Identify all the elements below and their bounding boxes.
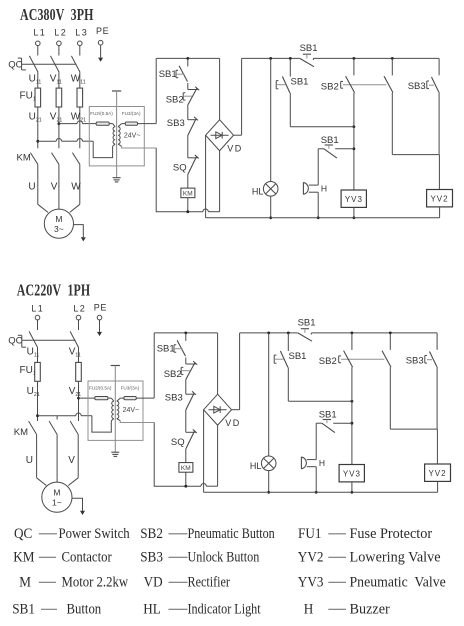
wire ladder bottom rail [top]	[203, 209, 220, 212]
svg-text:KM: KM	[17, 152, 31, 163]
wire horn branch riser [bottom]	[315, 423, 317, 459]
svg-text:M: M	[19, 574, 31, 591]
button SB1 (release, NC) [bottom]	[274, 333, 306, 401]
svg-text:FU3/(3A): FU3/(3A)	[122, 111, 141, 116]
node V11	[50, 73, 62, 85]
svg-text:U11: U11	[29, 73, 42, 85]
node W11	[71, 73, 86, 85]
wire secondary-top riser [top]	[155, 58, 157, 123]
ground symbol (T2)	[111, 452, 119, 456]
svg-text:QC: QC	[8, 59, 22, 70]
svg-text:YV3: YV3	[298, 574, 324, 591]
wire YV3 return [bottom]	[351, 482, 354, 494]
node W21	[71, 111, 86, 123]
svg-text:L2: L2	[54, 27, 67, 37]
svg-text:FU1: FU1	[20, 365, 36, 377]
contactor coil KM [bottom]	[179, 463, 193, 488]
title AC220V 1PH	[17, 282, 91, 301]
node U11 (1ph)	[27, 347, 40, 359]
svg-text:KM: KM	[13, 549, 35, 566]
svg-text:Pneumatic Button: Pneumatic Button	[188, 525, 275, 541]
svg-text:M: M	[53, 488, 60, 498]
wire motor feeds	[38, 204, 80, 212]
svg-text:Indicator Light: Indicator Light	[188, 600, 261, 616]
svg-text:SB1: SB1	[300, 43, 318, 54]
wire HL return [bottom]	[267, 471, 270, 494]
svg-text:YV2: YV2	[430, 195, 448, 204]
svg-text:FU2/(0.5A): FU2/(0.5A)	[89, 386, 112, 391]
svg-text:KM: KM	[183, 191, 193, 198]
transformer primary winding (T2)	[108, 398, 114, 421]
svg-text:Button: Button	[67, 602, 102, 618]
wire bridge AC1 (top vertex) [bottom]	[217, 333, 219, 394]
svg-text:SB3: SB3	[406, 356, 424, 367]
svg-text:SB1: SB1	[159, 69, 177, 80]
wire bridge DC- (bottom vertex) [top]	[219, 151, 221, 212]
button SB2 (two-pole) [top]	[321, 58, 393, 190]
wire bridge DC- (bottom vertex) [bottom]	[217, 425, 219, 486]
svg-text:SB3: SB3	[165, 393, 183, 404]
svg-text:V: V	[68, 455, 75, 466]
fuse FU2 label (T1)	[90, 111, 113, 116]
wire YV3 return [top]	[353, 207, 356, 219]
rectifier VD [top]	[206, 120, 243, 154]
wire HL return [top]	[269, 196, 272, 219]
wire buzzer return [top]	[317, 192, 320, 219]
transformer secondary winding (T1)	[118, 124, 122, 147]
button SB1 (ladder stop) [bottom]	[157, 333, 186, 364]
svg-text:3~: 3~	[54, 224, 64, 234]
button SB3 (ladder) [top]	[167, 117, 198, 158]
terminal L2	[54, 27, 67, 55]
svg-text:SB2: SB2	[164, 369, 182, 380]
svg-text:24V~: 24V~	[123, 407, 140, 414]
wire buzzer return [bottom]	[315, 467, 318, 494]
wire transformer primary feed from V21	[58, 121, 97, 125]
svg-text:Fuse Protector: Fuse Protector	[350, 526, 433, 542]
svg-text:SQ: SQ	[171, 437, 185, 448]
node V21	[50, 111, 63, 123]
rectifier VD [bottom]	[204, 394, 241, 428]
svg-text:M: M	[55, 214, 62, 224]
node V (1ph)	[68, 455, 75, 466]
terminal PE	[96, 26, 109, 62]
wire secondary-bottom riser [bottom]	[154, 423, 201, 487]
button SB1 (horn) [top]	[318, 135, 354, 158]
svg-text:HL: HL	[250, 461, 262, 471]
terminal L3	[75, 27, 88, 55]
fuse FU1 label (1ph)	[20, 365, 36, 377]
svg-text:SB2: SB2	[319, 356, 337, 367]
svg-text:V: V	[51, 182, 58, 193]
valve YV2 [bottom]	[425, 464, 451, 481]
button SB2 (ladder) [top]	[166, 87, 200, 120]
svg-text:SQ: SQ	[173, 162, 187, 173]
fuse FU2 (T2)	[95, 397, 108, 400]
wire SB2/SB3 junction to YV2 [top]	[392, 155, 439, 190]
node V	[51, 182, 58, 193]
fuse FU1 pole 3	[77, 72, 83, 148]
node V21 (1ph)	[69, 386, 82, 398]
svg-text:FU1: FU1	[298, 525, 321, 542]
svg-text:FU1: FU1	[20, 91, 36, 103]
terminal PE (1ph)	[94, 302, 107, 336]
svg-text:AC220V 1PH: AC220V 1PH	[17, 282, 91, 301]
svg-text:W11: W11	[71, 73, 86, 85]
wire ladder bottom rail [bottom]	[201, 483, 218, 486]
wire top rail segment 2 [top]	[242, 57, 440, 60]
fuse FU1 pole 1 (1ph)	[35, 348, 41, 421]
contactor coil KM [top]	[181, 188, 195, 213]
svg-text:V21: V21	[69, 386, 82, 398]
wire secondary bottom to control (T1)	[122, 146, 157, 148]
svg-text:V11: V11	[50, 73, 62, 85]
svg-text:VD: VD	[144, 574, 163, 591]
svg-text:YV3: YV3	[345, 195, 363, 204]
node U	[28, 182, 35, 193]
terminal L1	[33, 27, 46, 55]
svg-text:Motor 2.2kw: Motor 2.2kw	[62, 575, 129, 591]
transformer enclosure box (T2)	[88, 381, 143, 440]
fuse FU2 label (T2)	[89, 386, 112, 391]
svg-text:SB1: SB1	[289, 351, 307, 362]
svg-text:PE: PE	[94, 302, 107, 312]
wire HL feed [top]	[270, 58, 272, 181]
contactor KM main contacts	[17, 152, 80, 204]
title AC380V 3PH	[20, 6, 94, 25]
valve YV3 [bottom]	[339, 465, 364, 482]
wire motor feeds (1ph)	[37, 478, 79, 486]
svg-text:FU2/(0.5A): FU2/(0.5A)	[90, 111, 113, 116]
svg-text:SB1: SB1	[298, 318, 316, 329]
svg-text:SB1: SB1	[157, 344, 175, 355]
fuse FU3 label (T1)	[122, 111, 141, 116]
wire bridge AC2 (left vertex to return) [top]	[205, 135, 207, 218]
svg-text:Lowering Valve: Lowering Valve	[350, 549, 441, 565]
svg-text:Unlock Button: Unlock Button	[188, 548, 260, 564]
svg-text:YV2: YV2	[428, 469, 446, 478]
fuse FU3 (T2)	[124, 397, 136, 400]
svg-text:SB3: SB3	[408, 81, 426, 92]
contactor KM main contacts (1ph)	[14, 416, 78, 478]
buzzer H [bottom]	[301, 457, 325, 469]
svg-text:HL: HL	[252, 187, 264, 197]
transformer primary winding (T1)	[109, 124, 115, 147]
svg-text:VD: VD	[227, 143, 243, 153]
svg-text:PE: PE	[96, 26, 109, 36]
terminal L1 (1ph)	[31, 303, 44, 330]
button SB1 (horn) [bottom]	[316, 410, 352, 433]
transformer T core/screen symbol (T1)	[112, 91, 121, 178]
node V11 (1ph)	[69, 347, 81, 359]
svg-text:VD: VD	[225, 418, 241, 428]
wire top rail segment 2 [bottom]	[240, 332, 438, 335]
node U (1ph)	[26, 455, 33, 466]
svg-text:KM: KM	[181, 465, 191, 472]
wire HL feed [bottom]	[268, 333, 270, 456]
ground symbol (T1)	[113, 178, 121, 182]
motor ground (1ph)	[72, 498, 85, 515]
svg-text:U: U	[26, 455, 33, 466]
wire YV2 return [bottom]	[437, 481, 439, 492]
svg-text:AC380V 3PH: AC380V 3PH	[20, 6, 94, 25]
wire top rail segment 1 [bottom]	[154, 332, 217, 335]
wire bridge DC+ (right vertex riser) [bottom]	[232, 333, 240, 410]
wire bridge DC+ (right vertex riser) [top]	[234, 58, 242, 135]
wire bridge AC2 (left vertex to return) [bottom]	[203, 410, 205, 493]
svg-text:SB1: SB1	[12, 601, 35, 618]
svg-text:FU3/(3A): FU3/(3A)	[121, 386, 140, 391]
svg-text:U21: U21	[29, 111, 42, 123]
svg-text:1~: 1~	[52, 498, 62, 508]
svg-text:SB3: SB3	[167, 118, 185, 129]
motor ground	[74, 225, 86, 242]
fuse FU1 pole 2 (1ph)	[76, 348, 82, 421]
svg-text:YV2: YV2	[298, 549, 324, 566]
button SB3 (unlock) [top]	[408, 58, 439, 154]
valve YV2 [top]	[427, 190, 453, 207]
svg-text:H: H	[321, 184, 327, 194]
limit switch SQ [top]	[173, 155, 199, 188]
button SB1 (ladder stop) [top]	[159, 58, 188, 89]
fuse FU1 label	[20, 91, 36, 103]
svg-text:Contactor: Contactor	[62, 550, 113, 566]
svg-text:SB2: SB2	[140, 525, 163, 542]
fuse FU3 label (T2)	[121, 386, 140, 391]
terminal L2 (1ph)	[73, 303, 86, 330]
button SB2 (ladder) [bottom]	[164, 361, 198, 394]
label 24V~ (T1)	[124, 133, 141, 140]
indicator light HL [bottom]	[250, 456, 276, 471]
button SB2 (two-pole) [bottom]	[319, 333, 391, 465]
valve YV3 [top]	[341, 190, 366, 207]
svg-text:YV3: YV3	[343, 470, 361, 479]
svg-text:L3: L3	[75, 27, 88, 37]
switch QC (2-pole)	[8, 331, 79, 348]
wire YV2 return [top]	[439, 207, 441, 218]
wire secondary-bottom riser [top]	[156, 148, 203, 212]
wire SB2/SB3 junction to YV2 [bottom]	[390, 429, 437, 464]
fuse FU1 pole 2	[56, 72, 62, 148]
wire bridge AC1 (top vertex) [top]	[219, 58, 221, 119]
fuse FU3 (T1)	[125, 122, 137, 125]
node U21 (1ph)	[27, 386, 40, 398]
svg-text:L1: L1	[33, 27, 46, 37]
wire SB1-NC branch to YV3 column [top]	[290, 125, 355, 128]
button SB1 (release, NC) [top]	[276, 58, 308, 126]
svg-text:Rectifier: Rectifier	[188, 573, 231, 589]
svg-text:24V~: 24V~	[124, 133, 141, 140]
indicator light HL [top]	[252, 182, 278, 197]
svg-text:QC: QC	[14, 525, 32, 542]
label 24V~ (T2)	[123, 407, 140, 414]
wire secondary top to control (T1)	[122, 123, 157, 125]
motor M (3-phase)	[44, 209, 73, 238]
transformer secondary winding (T2)	[117, 398, 121, 421]
node U21	[29, 111, 42, 123]
svg-text:SB2: SB2	[321, 82, 339, 93]
svg-text:SB1: SB1	[291, 77, 309, 88]
node W	[71, 182, 81, 193]
svg-text:V11: V11	[69, 347, 81, 359]
motor M (1-phase)	[42, 482, 72, 512]
wire transformer primary feed from V21 (1ph)	[77, 397, 95, 400]
wire load return rail [bottom]	[204, 491, 438, 493]
transformer enclosure box (T1)	[89, 107, 144, 166]
fuse FU2 (T1)	[96, 122, 109, 125]
svg-text:Buzzer: Buzzer	[350, 601, 390, 617]
button SB3 (ladder) [bottom]	[165, 391, 196, 432]
node U11	[29, 73, 42, 85]
svg-text:QC: QC	[8, 335, 22, 346]
button SB1 (master, on rail) [top]	[300, 43, 318, 67]
svg-text:L1: L1	[31, 303, 44, 313]
transformer T core/screen symbol (T2)	[111, 366, 120, 453]
button SB1 (master, on rail) [bottom]	[298, 318, 316, 342]
svg-text:HL: HL	[143, 601, 161, 618]
limit switch SQ [bottom]	[171, 429, 197, 462]
wire secondary-top riser [bottom]	[153, 333, 155, 398]
svg-text:Pneumatic Valve: Pneumatic Valve	[350, 574, 446, 591]
fuse FU1 pole 1	[35, 72, 41, 148]
button SB3 (unlock) [bottom]	[406, 333, 437, 429]
svg-text:H: H	[304, 601, 314, 618]
svg-text:V21: V21	[50, 111, 63, 123]
svg-text:U: U	[28, 182, 35, 193]
svg-text:Power Switch: Power Switch	[59, 526, 130, 542]
svg-text:SB3: SB3	[140, 549, 163, 566]
wire transformer primary return from U21	[36, 139, 112, 158]
svg-text:SB2: SB2	[166, 94, 184, 105]
legend table	[12, 525, 446, 618]
wire horn branch riser [top]	[317, 149, 319, 185]
wire load return rail [top]	[206, 217, 440, 219]
wire secondary top to control (T2)	[120, 397, 154, 399]
svg-text:KM: KM	[14, 427, 28, 438]
svg-text:H: H	[319, 458, 325, 468]
wire top rail segment 1 [top]	[156, 57, 219, 60]
buzzer H [top]	[303, 182, 327, 194]
wire SB1-NC branch to YV3 column [bottom]	[288, 400, 353, 403]
wire secondary bottom to control (T2)	[120, 421, 154, 423]
svg-text:W: W	[71, 182, 81, 193]
svg-text:L2: L2	[73, 303, 86, 313]
wire transformer primary return from U21 (1ph)	[36, 413, 111, 432]
switch QC (3-pole knife switch)	[8, 56, 80, 73]
